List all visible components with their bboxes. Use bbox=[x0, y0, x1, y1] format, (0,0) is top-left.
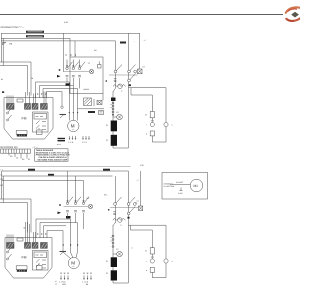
svg-text:A 4M: A 4M bbox=[178, 192, 183, 195]
svg-text:ALLACCIAM: ALLACCIAM bbox=[164, 185, 175, 188]
svg-text:⌝: ⌝ bbox=[134, 41, 135, 44]
svg-text:vn: vn bbox=[55, 284, 57, 286]
svg-text:DIE NOME FUNZ ADESIVI ONIP: DIE NOME FUNZ ADESIVI ONIP bbox=[38, 158, 68, 161]
svg-text:FM: FM bbox=[22, 117, 27, 121]
svg-text:Y/N: Y/N bbox=[140, 164, 144, 167]
svg-text:a.b.c: a.b.c bbox=[57, 143, 61, 146]
svg-text:L 1 N: L 1 N bbox=[69, 141, 74, 144]
svg-text:GB: GB bbox=[9, 43, 13, 46]
svg-text:L 1 2 4: L 1 2 4 bbox=[82, 281, 89, 284]
svg-text:L 1 N 4: L 1 N 4 bbox=[59, 281, 66, 284]
svg-text:MAINS: MAINS bbox=[84, 88, 90, 91]
svg-text:JMX: JMX bbox=[62, 283, 67, 286]
svg-text:x: x bbox=[172, 260, 173, 263]
svg-text:M1: M1 bbox=[194, 184, 199, 188]
svg-text:00V/308A/T.CNV °7 ∼: 00V/308A/T.CNV °7 ∼ bbox=[1, 26, 25, 29]
svg-text:FM: FM bbox=[22, 256, 27, 260]
svg-text:M1 MOT: M1 MOT bbox=[176, 181, 184, 184]
svg-text:x: x bbox=[172, 124, 173, 127]
svg-text:JM: JM bbox=[86, 283, 89, 286]
svg-text:B(3J)O(3|3 3|3: B(3J)O(3|3 3|3 bbox=[1, 146, 18, 149]
